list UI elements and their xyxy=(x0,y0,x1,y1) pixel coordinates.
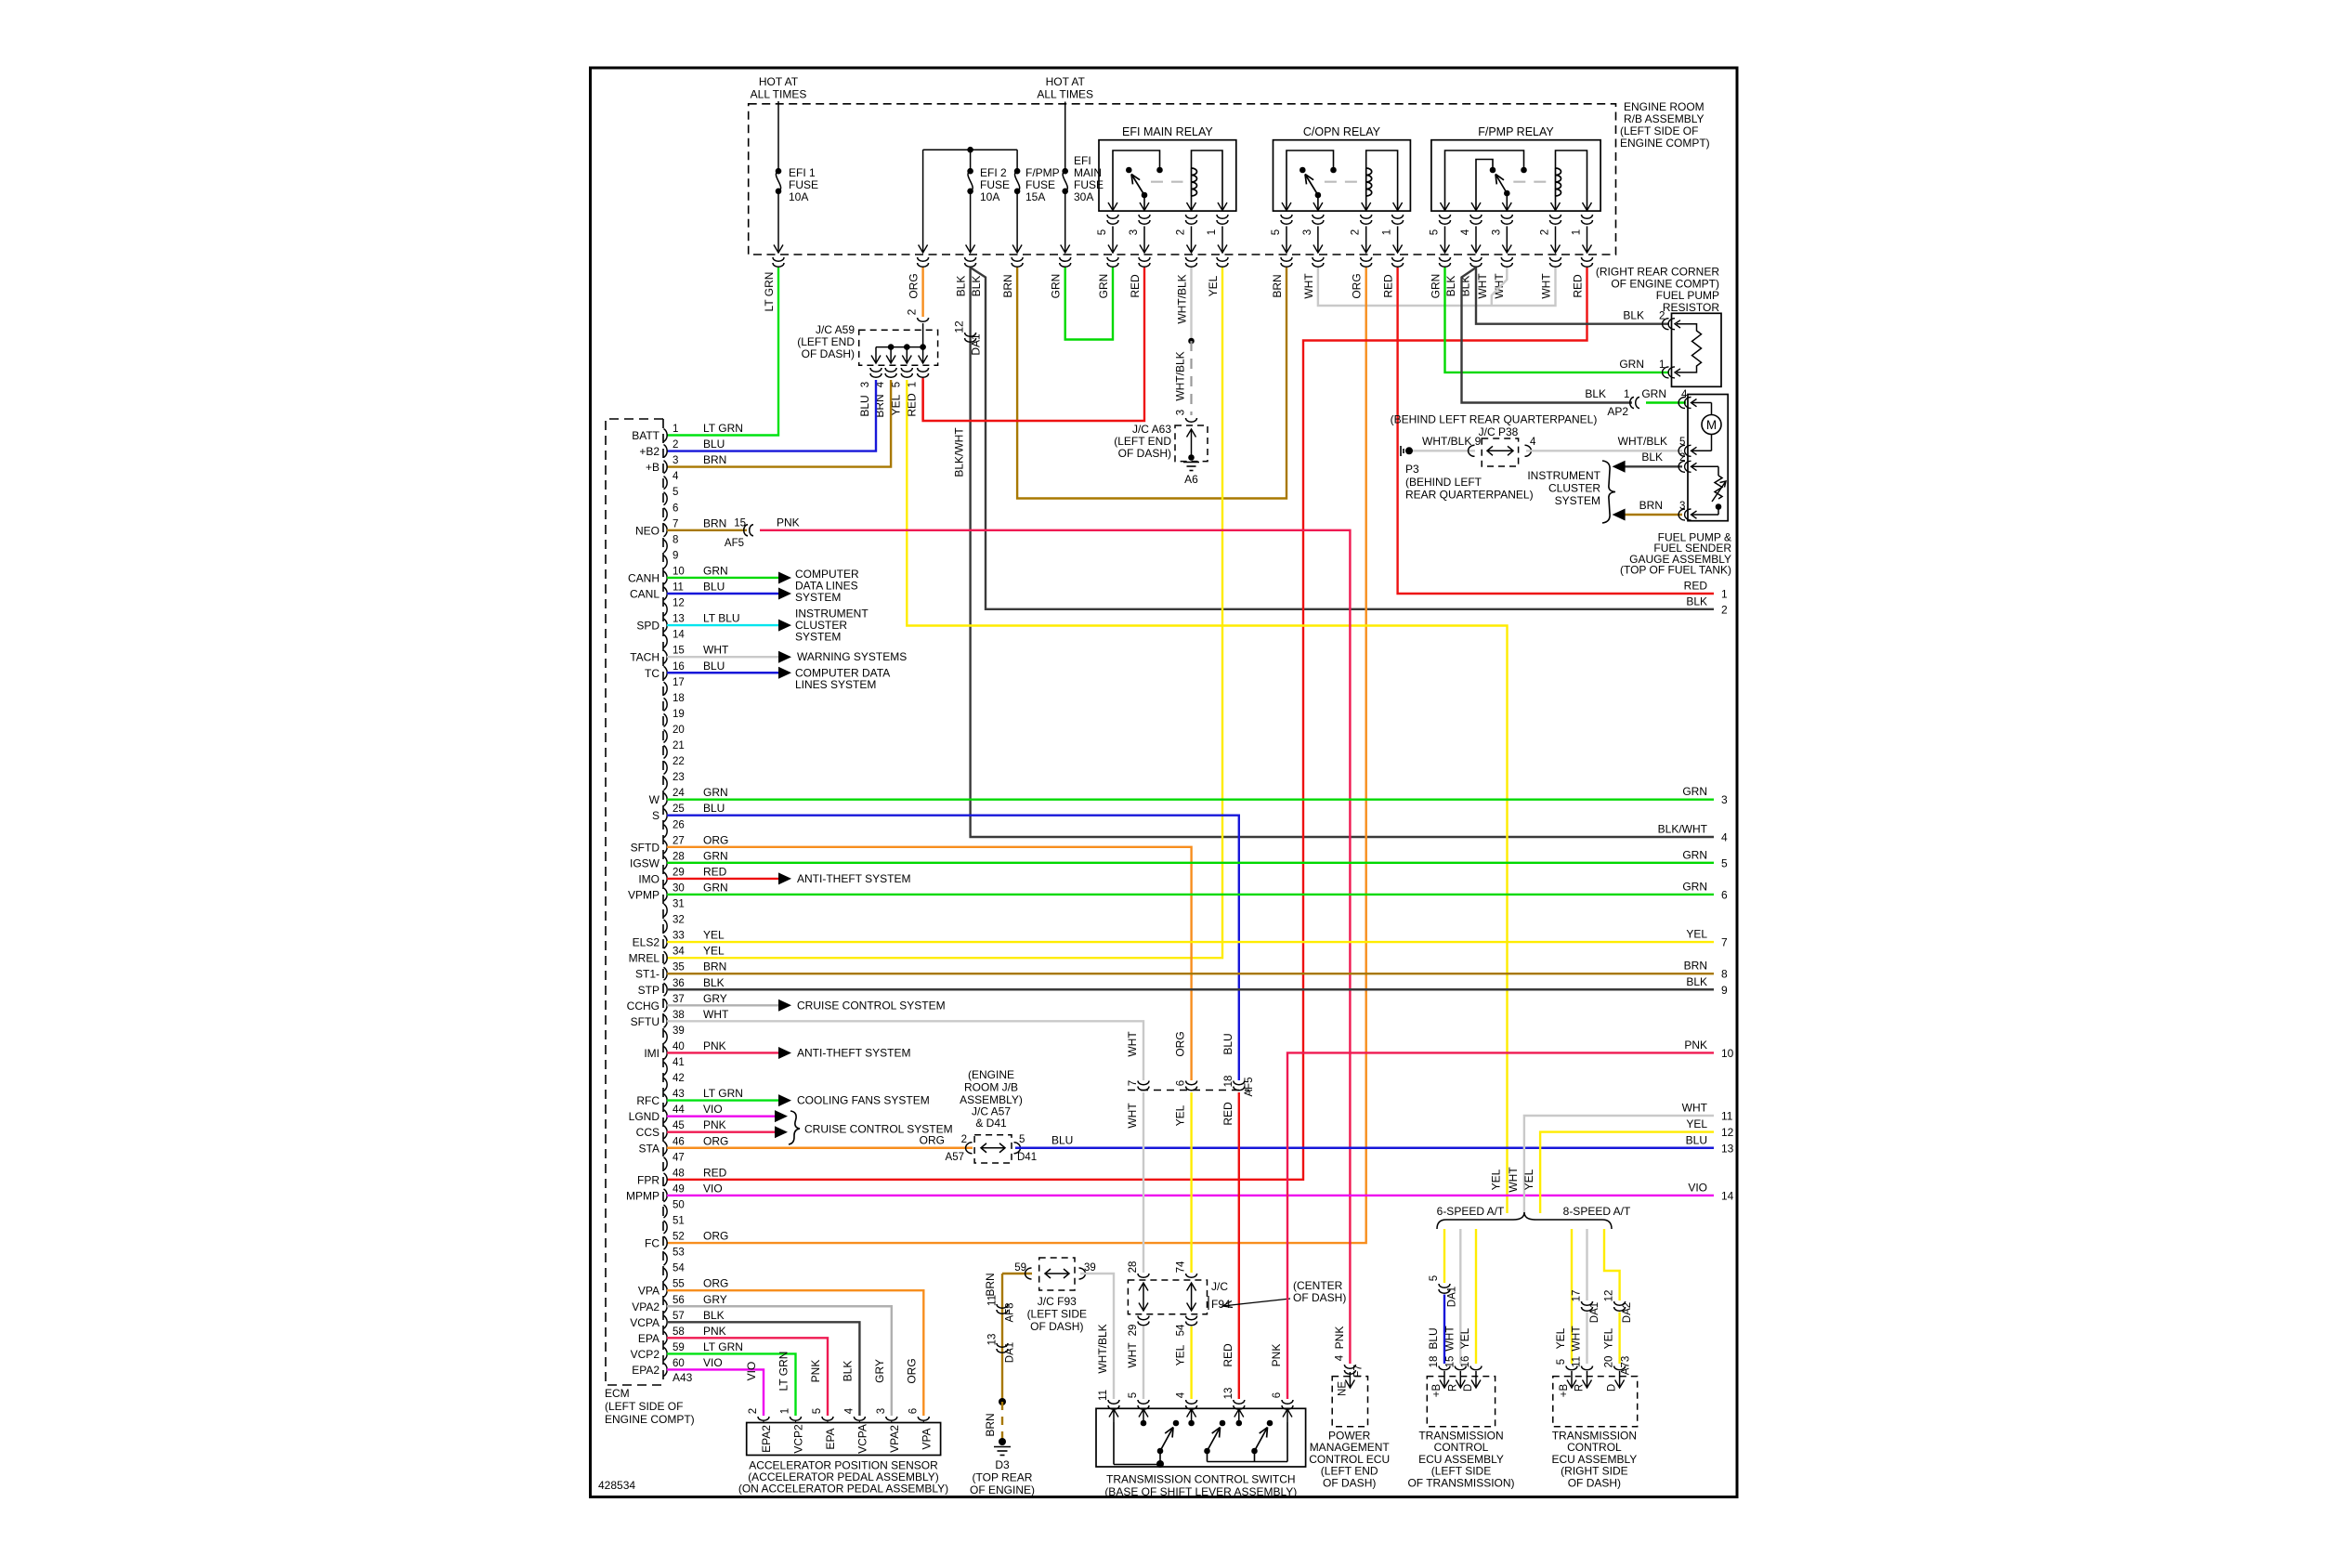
svg-text:AF8: AF8 xyxy=(1005,1302,1016,1322)
svg-text:EFI: EFI xyxy=(1074,154,1091,167)
svg-text:(BEHIND LEFT: (BEHIND LEFT xyxy=(1405,476,1482,489)
svg-text:5: 5 xyxy=(1271,229,1282,235)
fuse EFI 2 10A xyxy=(967,168,973,175)
svg-text:PNK: PNK xyxy=(1684,1039,1707,1052)
svg-text:60: 60 xyxy=(673,1358,685,1369)
svg-text:TACH: TACH xyxy=(630,651,660,664)
svg-text:32: 32 xyxy=(673,915,685,926)
svg-text:EFI MAIN RELAY: EFI MAIN RELAY xyxy=(1122,125,1213,138)
J/C P38 dashed box xyxy=(1482,438,1518,466)
svg-text:OF DASH): OF DASH) xyxy=(1293,1291,1346,1304)
svg-text:EPA: EPA xyxy=(638,1332,660,1345)
svg-text:GRN: GRN xyxy=(1682,848,1707,861)
wire GRN VPMP to right edge 6 xyxy=(667,894,1714,895)
svg-text:4: 4 xyxy=(843,1407,855,1414)
svg-text:ORG: ORG xyxy=(703,1277,728,1290)
svg-text:BLU: BLU xyxy=(1686,1133,1707,1146)
J/C F93 internal arrows xyxy=(1045,1273,1069,1274)
svg-text:GRN: GRN xyxy=(1641,387,1666,400)
instrument cluster brace xyxy=(1602,461,1615,523)
svg-text:58: 58 xyxy=(673,1326,685,1338)
8-speed ECU dashed box xyxy=(1553,1377,1638,1427)
J/C A57 D41 dashed box xyxy=(974,1135,1012,1163)
wire WHT AF5 to J/C F94 pin28 xyxy=(1143,1092,1144,1273)
svg-text:ECM: ECM xyxy=(605,1387,630,1400)
svg-text:WHT: WHT xyxy=(1476,273,1489,299)
wire ORG VPA to accelerator sensor pin6 xyxy=(667,1290,923,1416)
wire BLK F/PMP pin4 to resistor 2 xyxy=(1476,268,1669,324)
connector AF5 on NEO wire xyxy=(744,525,753,536)
svg-text:WHT: WHT xyxy=(1302,273,1315,299)
svg-text:BLK/WHT: BLK/WHT xyxy=(953,427,966,477)
svg-text:RED: RED xyxy=(703,865,727,878)
svg-text:31: 31 xyxy=(673,899,685,910)
svg-text:RED: RED xyxy=(1221,1102,1234,1126)
wire BLK cluster arrow to fuel pump pin2 xyxy=(1625,465,1682,467)
svg-text:WHT/BLK: WHT/BLK xyxy=(1174,351,1187,400)
splice dot WHT/BLK xyxy=(1188,338,1195,345)
power management ECU dashed box xyxy=(1332,1377,1367,1427)
svg-text:BRN: BRN xyxy=(984,1413,997,1436)
8-speed connectors at box xyxy=(1566,1366,1577,1370)
wire ORG STA to J/C A57-D41 xyxy=(667,1147,973,1149)
wire BLU DA1 to 6-speed +B xyxy=(1443,1295,1445,1365)
svg-text:7: 7 xyxy=(673,518,678,529)
svg-text:10: 10 xyxy=(673,566,685,577)
svg-text:GRN: GRN xyxy=(1050,274,1063,299)
svg-text:4: 4 xyxy=(1334,1354,1345,1361)
C/OPN RELAY pin 3 xyxy=(1313,203,1323,211)
svg-text:11: 11 xyxy=(1572,1356,1583,1367)
J/C P38 internal arrows xyxy=(1487,450,1513,451)
svg-text:7: 7 xyxy=(1721,936,1728,949)
ECM pin strip dashed line xyxy=(662,419,664,1385)
svg-text:4: 4 xyxy=(673,471,679,482)
svg-text:GRN: GRN xyxy=(1097,274,1110,299)
svg-text:VPA: VPA xyxy=(920,1428,933,1449)
svg-text:F/PMP: F/PMP xyxy=(1025,166,1060,179)
svg-text:29: 29 xyxy=(673,867,685,878)
wire GRN EFI MAIN fuse to relay pin5 xyxy=(1065,268,1113,340)
svg-text:5: 5 xyxy=(1128,1392,1139,1398)
EFI MAIN RELAY pin 1 xyxy=(1218,203,1227,211)
svg-text:3: 3 xyxy=(876,1408,887,1414)
svg-text:FC: FC xyxy=(645,1237,660,1250)
svg-text:WARNING SYSTEMS: WARNING SYSTEMS xyxy=(797,650,907,663)
wire WHT/BLK P38 to fuel pump pin5 xyxy=(1526,450,1682,451)
wire WHT F94 to switch pin5 xyxy=(1143,1326,1144,1399)
ECM dashed box xyxy=(606,419,663,1385)
wire BLK EFI2 fuse to fuel pump 2 xyxy=(971,268,1714,609)
svg-text:DA1: DA1 xyxy=(1447,1287,1458,1307)
svg-text:R: R xyxy=(1447,1384,1458,1392)
ground symbol D3 xyxy=(994,1446,1011,1448)
transmission control switch box xyxy=(1096,1408,1306,1467)
svg-text:J/C A59: J/C A59 xyxy=(816,323,855,336)
svg-text:GRN: GRN xyxy=(1682,880,1707,893)
svg-text:J/C P38: J/C P38 xyxy=(1479,425,1519,438)
C/OPN RELAY pin 2 xyxy=(1362,203,1371,211)
svg-text:16: 16 xyxy=(1460,1356,1471,1368)
F/PMP RELAY pin 1 xyxy=(1583,203,1592,211)
switch contacts row xyxy=(1141,1420,1147,1427)
connector 12 DA1 on BLK/WHT xyxy=(965,333,976,342)
svg-text:1: 1 xyxy=(780,1408,791,1414)
wire PNK EPA to accelerator pin5 xyxy=(667,1338,828,1416)
svg-text:WHT: WHT xyxy=(1540,273,1553,299)
svg-text:BLK: BLK xyxy=(1444,276,1457,297)
svg-text:ORG: ORG xyxy=(703,1134,728,1147)
svg-text:VIO: VIO xyxy=(745,1362,758,1381)
wire BRN down to D3 xyxy=(1001,1274,1003,1401)
wire YEL ELS2 to right edge 7 xyxy=(667,941,1714,943)
svg-text:30A: 30A xyxy=(1074,190,1093,203)
wire BLU D41 to right edge 13 xyxy=(1015,1147,1714,1149)
svg-text:45: 45 xyxy=(673,1120,685,1131)
svg-text:42: 42 xyxy=(673,1073,685,1084)
svg-text:2: 2 xyxy=(961,1134,967,1145)
wire RED J/C A59 pin1 down xyxy=(921,380,923,420)
svg-text:35: 35 xyxy=(673,962,685,973)
svg-text:SYSTEM: SYSTEM xyxy=(795,631,841,644)
6-speed 8-speed brace xyxy=(1437,1212,1612,1229)
svg-text:5: 5 xyxy=(1721,856,1728,869)
svg-text:WHT/BLK: WHT/BLK xyxy=(1618,435,1667,448)
svg-text:OF TRANSMISSION): OF TRANSMISSION) xyxy=(1407,1476,1514,1489)
svg-text:15: 15 xyxy=(673,646,685,657)
svg-text:+B: +B xyxy=(646,461,660,474)
wire WHT/BLK dashed to J/C A63 xyxy=(1190,341,1192,415)
svg-text:CCHG: CCHG xyxy=(627,1000,660,1013)
connectors at R/B box bottom edge xyxy=(773,257,784,267)
ground symbol A6 xyxy=(1183,462,1199,464)
wire GRN AP2 to fuel pump pin4 xyxy=(1646,401,1686,403)
svg-text:BLK: BLK xyxy=(1623,309,1644,322)
svg-text:VPA2: VPA2 xyxy=(888,1425,901,1453)
wire YEL F94 to switch pin4 xyxy=(1190,1326,1192,1399)
svg-text:ENGINE COMPT): ENGINE COMPT) xyxy=(1620,137,1710,150)
wire WHT brace to 8-speed R xyxy=(1586,1229,1587,1300)
connector left A57 xyxy=(966,1143,973,1154)
svg-text:ANTI-THEFT SYSTEM: ANTI-THEFT SYSTEM xyxy=(797,872,910,885)
6-speed pins +B R D xyxy=(1443,1371,1445,1388)
fuel pump resistor element xyxy=(1677,324,1702,372)
svg-text:59: 59 xyxy=(673,1342,685,1353)
svg-text:R/B ASSEMBLY: R/B ASSEMBLY xyxy=(1624,112,1704,125)
svg-text:NEO: NEO xyxy=(635,524,660,537)
svg-text:GRN: GRN xyxy=(703,881,728,894)
svg-text:+B: +B xyxy=(1559,1383,1570,1397)
svg-text:14: 14 xyxy=(1721,1189,1734,1202)
svg-text:YEL: YEL xyxy=(1207,275,1220,296)
svg-text:2: 2 xyxy=(748,1408,759,1414)
svg-text:3: 3 xyxy=(1721,793,1728,806)
wire WHT/BLK F93 to switch pin11 xyxy=(1080,1274,1114,1399)
svg-text:GRN: GRN xyxy=(1430,274,1443,299)
svg-text:11: 11 xyxy=(673,582,684,594)
svg-text:ENGINE COMPT): ENGINE COMPT) xyxy=(605,1413,695,1426)
svg-text:39: 39 xyxy=(673,1026,685,1037)
svg-text:1: 1 xyxy=(1624,389,1629,400)
switch pin entry arrows xyxy=(1113,1408,1115,1422)
svg-text:7: 7 xyxy=(1128,1080,1139,1086)
wire VIO LGND with arrow xyxy=(667,1115,775,1117)
EFI MAIN RELAY coil xyxy=(1192,168,1197,196)
svg-text:RED: RED xyxy=(703,1166,727,1179)
svg-text:YEL: YEL xyxy=(1554,1327,1567,1349)
J/C A59 pin connectors 3 4 5 1 xyxy=(870,368,882,377)
wire ORG C/OPN pin2 to ECM FC xyxy=(667,268,1366,1243)
svg-text:BATT: BATT xyxy=(632,429,660,442)
wire EFI1 fuse to dashed box bottom with arrow xyxy=(777,191,779,253)
svg-text:YEL: YEL xyxy=(1458,1327,1471,1349)
svg-text:PNK: PNK xyxy=(1333,1326,1346,1350)
svg-text:ORG: ORG xyxy=(920,1133,945,1146)
svg-text:26: 26 xyxy=(673,819,685,830)
8-speed pins +B R D xyxy=(1571,1371,1573,1388)
svg-text:59: 59 xyxy=(1014,1262,1026,1274)
svg-text:IMO: IMO xyxy=(638,872,660,885)
svg-text:28: 28 xyxy=(673,851,685,862)
relay C/OPN RELAY box xyxy=(1273,140,1411,211)
wire YEL EFI MAIN pin1 to MREL xyxy=(667,268,1222,958)
svg-text:VIO: VIO xyxy=(703,1356,723,1369)
svg-text:GRN: GRN xyxy=(703,849,728,862)
J/C A59 dashed box xyxy=(859,330,938,365)
svg-text:VCPA: VCPA xyxy=(630,1316,660,1329)
svg-text:IMI: IMI xyxy=(644,1047,660,1060)
svg-text:55: 55 xyxy=(673,1279,685,1290)
EFI MAIN RELAY switch xyxy=(1113,150,1160,211)
svg-text:RED: RED xyxy=(1684,580,1708,593)
connector 2 at J/C A59 top xyxy=(918,318,929,321)
wire LT GRN VCP2 to accelerator pin1 xyxy=(667,1353,796,1416)
svg-text:YEL: YEL xyxy=(1602,1327,1615,1349)
wire LT BLU SPD with arrow to instrument cluster xyxy=(667,624,778,626)
svg-text:& D41: & D41 xyxy=(975,1117,1007,1130)
svg-text:18: 18 xyxy=(673,693,685,704)
svg-text:YEL: YEL xyxy=(1174,1344,1187,1365)
C/OPN RELAY pin 1 xyxy=(1393,203,1403,211)
wire BRN cluster arrow to fuel pump pin3 xyxy=(1625,514,1682,516)
wire BLU TC with arrow to computer data lines system xyxy=(667,672,778,673)
svg-text:F94: F94 xyxy=(1211,1298,1231,1311)
svg-text:12: 12 xyxy=(1604,1290,1615,1302)
svg-text:AP2: AP2 xyxy=(1607,405,1628,418)
connector right D41 xyxy=(1014,1143,1021,1154)
svg-text:LT GRN: LT GRN xyxy=(763,272,776,312)
wire YEL brace to 8-speed +B xyxy=(1571,1229,1573,1364)
svg-text:(LEFT END: (LEFT END xyxy=(797,335,855,348)
svg-text:A57: A57 xyxy=(946,1152,964,1163)
wire YEL brace jog to 8-speed D xyxy=(1604,1229,1620,1300)
svg-text:VPA2: VPA2 xyxy=(632,1300,660,1313)
svg-text:(BEHIND LEFT REAR QUARTERPANEL: (BEHIND LEFT REAR QUARTERPANEL) xyxy=(1391,413,1598,426)
svg-text:FUSE: FUSE xyxy=(1025,178,1055,191)
svg-text:1: 1 xyxy=(908,382,919,387)
wire VIO EPA2 to accelerator pin2 xyxy=(667,1369,764,1416)
svg-text:6: 6 xyxy=(1721,888,1728,901)
svg-text:GRN: GRN xyxy=(703,786,728,799)
connector 5 DA1 6-speed xyxy=(1439,1284,1450,1293)
svg-text:M: M xyxy=(1706,418,1717,432)
wire PNK IMI with arrow to anti-theft xyxy=(667,1052,778,1053)
svg-text:CANL: CANL xyxy=(630,588,660,601)
svg-text:TC: TC xyxy=(645,667,660,680)
svg-text:VPMP: VPMP xyxy=(628,888,660,901)
wire WHT/BLK EFI MAIN pin2 to splice xyxy=(1190,268,1192,341)
wire GRN IGSW to right edge 5 xyxy=(667,862,1714,864)
svg-text:4: 4 xyxy=(1530,437,1536,448)
svg-text:EPA2: EPA2 xyxy=(760,1425,773,1453)
dashed BRN to ground xyxy=(1001,1402,1003,1441)
svg-text:GRY: GRY xyxy=(873,1359,886,1383)
wire YEL brace to 6-speed +B DA1 xyxy=(1443,1229,1445,1283)
wire GRN F/PMP pin5 to fuel pump resistor 1 xyxy=(1445,268,1670,372)
svg-text:BRN: BRN xyxy=(1684,960,1707,973)
switch pin6 bus xyxy=(1208,1461,1288,1463)
svg-text:30: 30 xyxy=(673,882,685,894)
svg-text:(LEFT SIDE: (LEFT SIDE xyxy=(1027,1308,1087,1321)
svg-text:(TOP OF FUEL TANK): (TOP OF FUEL TANK) xyxy=(1620,564,1731,577)
svg-text:21: 21 xyxy=(673,740,685,751)
svg-text:WHT: WHT xyxy=(1126,1103,1139,1129)
svg-text:4: 4 xyxy=(1460,229,1471,235)
svg-text:11: 11 xyxy=(987,1295,999,1306)
svg-text:HOT AT: HOT AT xyxy=(1046,75,1086,88)
svg-text:VIO: VIO xyxy=(1688,1181,1707,1194)
svg-text:ORG: ORG xyxy=(1174,1031,1187,1056)
ground dot D3 xyxy=(999,1438,1006,1445)
svg-text:2: 2 xyxy=(1659,311,1665,322)
wire WHT TACH with arrow to warning systems xyxy=(667,656,778,658)
wire BLK STP to right edge 9 xyxy=(667,988,1714,990)
ECM pin arcs xyxy=(664,429,668,442)
F/PMP RELAY pin 4 xyxy=(1471,203,1481,211)
svg-text:AF5: AF5 xyxy=(1244,1077,1255,1096)
svg-text:GRY: GRY xyxy=(703,1293,727,1306)
svg-text:428534: 428534 xyxy=(598,1479,635,1492)
svg-text:WHT: WHT xyxy=(703,1008,729,1021)
svg-text:GRN: GRN xyxy=(1682,785,1707,798)
svg-text:BLU: BLU xyxy=(703,581,725,594)
svg-text:1: 1 xyxy=(1572,229,1583,235)
svg-text:48: 48 xyxy=(673,1168,685,1179)
EFI MAIN RELAY pin 3 xyxy=(1140,203,1149,211)
svg-text:ST1-: ST1- xyxy=(635,968,660,981)
svg-text:ORG: ORG xyxy=(1351,273,1364,298)
svg-text:WHT: WHT xyxy=(1570,1326,1583,1352)
svg-text:23: 23 xyxy=(673,772,685,783)
svg-text:WHT: WHT xyxy=(1126,1031,1139,1057)
F/PMP RELAY pin 3 xyxy=(1502,203,1511,211)
svg-text:11: 11 xyxy=(1098,1390,1109,1401)
6-speed ECU dashed box xyxy=(1427,1377,1495,1427)
svg-text:LT GRN: LT GRN xyxy=(777,1352,790,1392)
svg-text:PNK: PNK xyxy=(809,1360,822,1383)
svg-text:12: 12 xyxy=(953,320,966,333)
svg-text:12: 12 xyxy=(1721,1126,1734,1139)
J/C F94 internal arrows xyxy=(1143,1283,1144,1311)
wire BLK F/PMP pin4 to AP2 connector xyxy=(1462,268,1633,403)
svg-text:LT GRN: LT GRN xyxy=(703,422,743,435)
wire LT GRN RFC with arrow to cooling fans xyxy=(667,1099,778,1101)
svg-text:11: 11 xyxy=(1721,1110,1733,1123)
svg-text:PNK: PNK xyxy=(703,1325,726,1338)
svg-text:BLK: BLK xyxy=(1641,451,1663,464)
svg-text:(LEFT END: (LEFT END xyxy=(1114,435,1171,448)
svg-text:17: 17 xyxy=(1572,1290,1583,1302)
svg-text:WHT: WHT xyxy=(1126,1342,1139,1368)
svg-text:ELS2: ELS2 xyxy=(633,936,660,949)
svg-text:20: 20 xyxy=(673,725,685,736)
wire WHT SFTU to AF5 pin 7 xyxy=(667,1021,1143,1080)
svg-text:GRY: GRY xyxy=(703,992,727,1005)
wire BRN to J/C F93 xyxy=(1002,1273,1032,1274)
J/C A59 internal bus xyxy=(876,346,923,348)
svg-text:BLU: BLU xyxy=(1051,1133,1073,1146)
svg-text:34: 34 xyxy=(673,947,685,958)
fuel pump pin connectors xyxy=(1678,398,1691,409)
svg-text:F/PMP RELAY: F/PMP RELAY xyxy=(1478,125,1554,138)
wire BLU CANL with arrow xyxy=(667,593,778,595)
wire BRN NEO to AF5 connector xyxy=(667,529,747,531)
svg-text:13: 13 xyxy=(1223,1388,1234,1400)
wire YEL J/C A59 pin5 to 6-speed brace xyxy=(907,380,1507,1213)
svg-text:CCS: CCS xyxy=(636,1126,660,1139)
svg-text:F7: F7 xyxy=(1352,1365,1364,1377)
svg-text:REAR QUARTERPANEL): REAR QUARTERPANEL) xyxy=(1405,489,1534,502)
svg-text:3: 3 xyxy=(673,455,678,466)
wire PNK NEO to power management ECU xyxy=(760,530,1350,1364)
EFI MAIN RELAY armature dashed link xyxy=(1151,181,1183,183)
svg-text:BRN: BRN xyxy=(703,453,726,466)
svg-text:13: 13 xyxy=(987,1334,999,1346)
svg-text:RED: RED xyxy=(1572,274,1585,298)
svg-text:EFI 2: EFI 2 xyxy=(980,166,1007,179)
svg-text:YEL: YEL xyxy=(1174,1104,1187,1126)
svg-text:AF5: AF5 xyxy=(725,538,744,549)
svg-text:D3: D3 xyxy=(995,1458,1010,1471)
wire RED F/PMP pin1 to ECM FPR xyxy=(667,268,1587,1180)
AF5 connector dashed line xyxy=(1128,1090,1249,1091)
C/OPN RELAY switch xyxy=(1287,150,1334,211)
wire BRN F/PMP fuse to C/OPN pin5 xyxy=(1017,268,1287,499)
svg-text:BLK: BLK xyxy=(955,276,968,297)
resistor pin 1 connector xyxy=(1663,367,1675,378)
svg-text:LINES SYSTEM: LINES SYSTEM xyxy=(795,678,876,691)
connector 17 DA1 8-speed xyxy=(1582,1301,1593,1311)
svg-text:WHT/BLK: WHT/BLK xyxy=(1176,274,1189,323)
svg-text:10: 10 xyxy=(1721,1047,1734,1060)
J/C F93 dashed box xyxy=(1039,1258,1075,1290)
svg-text:3: 3 xyxy=(1129,229,1140,235)
svg-text:RED: RED xyxy=(1382,274,1395,298)
J/C A63 dashed box xyxy=(1175,425,1208,462)
C/OPN RELAY coil xyxy=(1366,168,1372,196)
AP2 connector xyxy=(1630,398,1639,409)
svg-text:SYSTEM: SYSTEM xyxy=(1555,494,1600,507)
svg-text:ROOM J/B: ROOM J/B xyxy=(964,1081,1018,1094)
svg-text:OF DASH): OF DASH) xyxy=(1118,447,1171,460)
svg-text:WHT: WHT xyxy=(1507,1167,1520,1193)
svg-text:2: 2 xyxy=(1540,229,1551,235)
F/PMP RELAY armature dashed link xyxy=(1513,181,1547,183)
engine room R/B assembly dashed box xyxy=(749,104,1616,255)
svg-text:8: 8 xyxy=(1721,968,1728,981)
fuel sender resistor xyxy=(1692,465,1718,467)
svg-text:(ON ACCELERATOR PEDAL ASSEMBLY: (ON ACCELERATOR PEDAL ASSEMBLY) xyxy=(738,1483,948,1496)
